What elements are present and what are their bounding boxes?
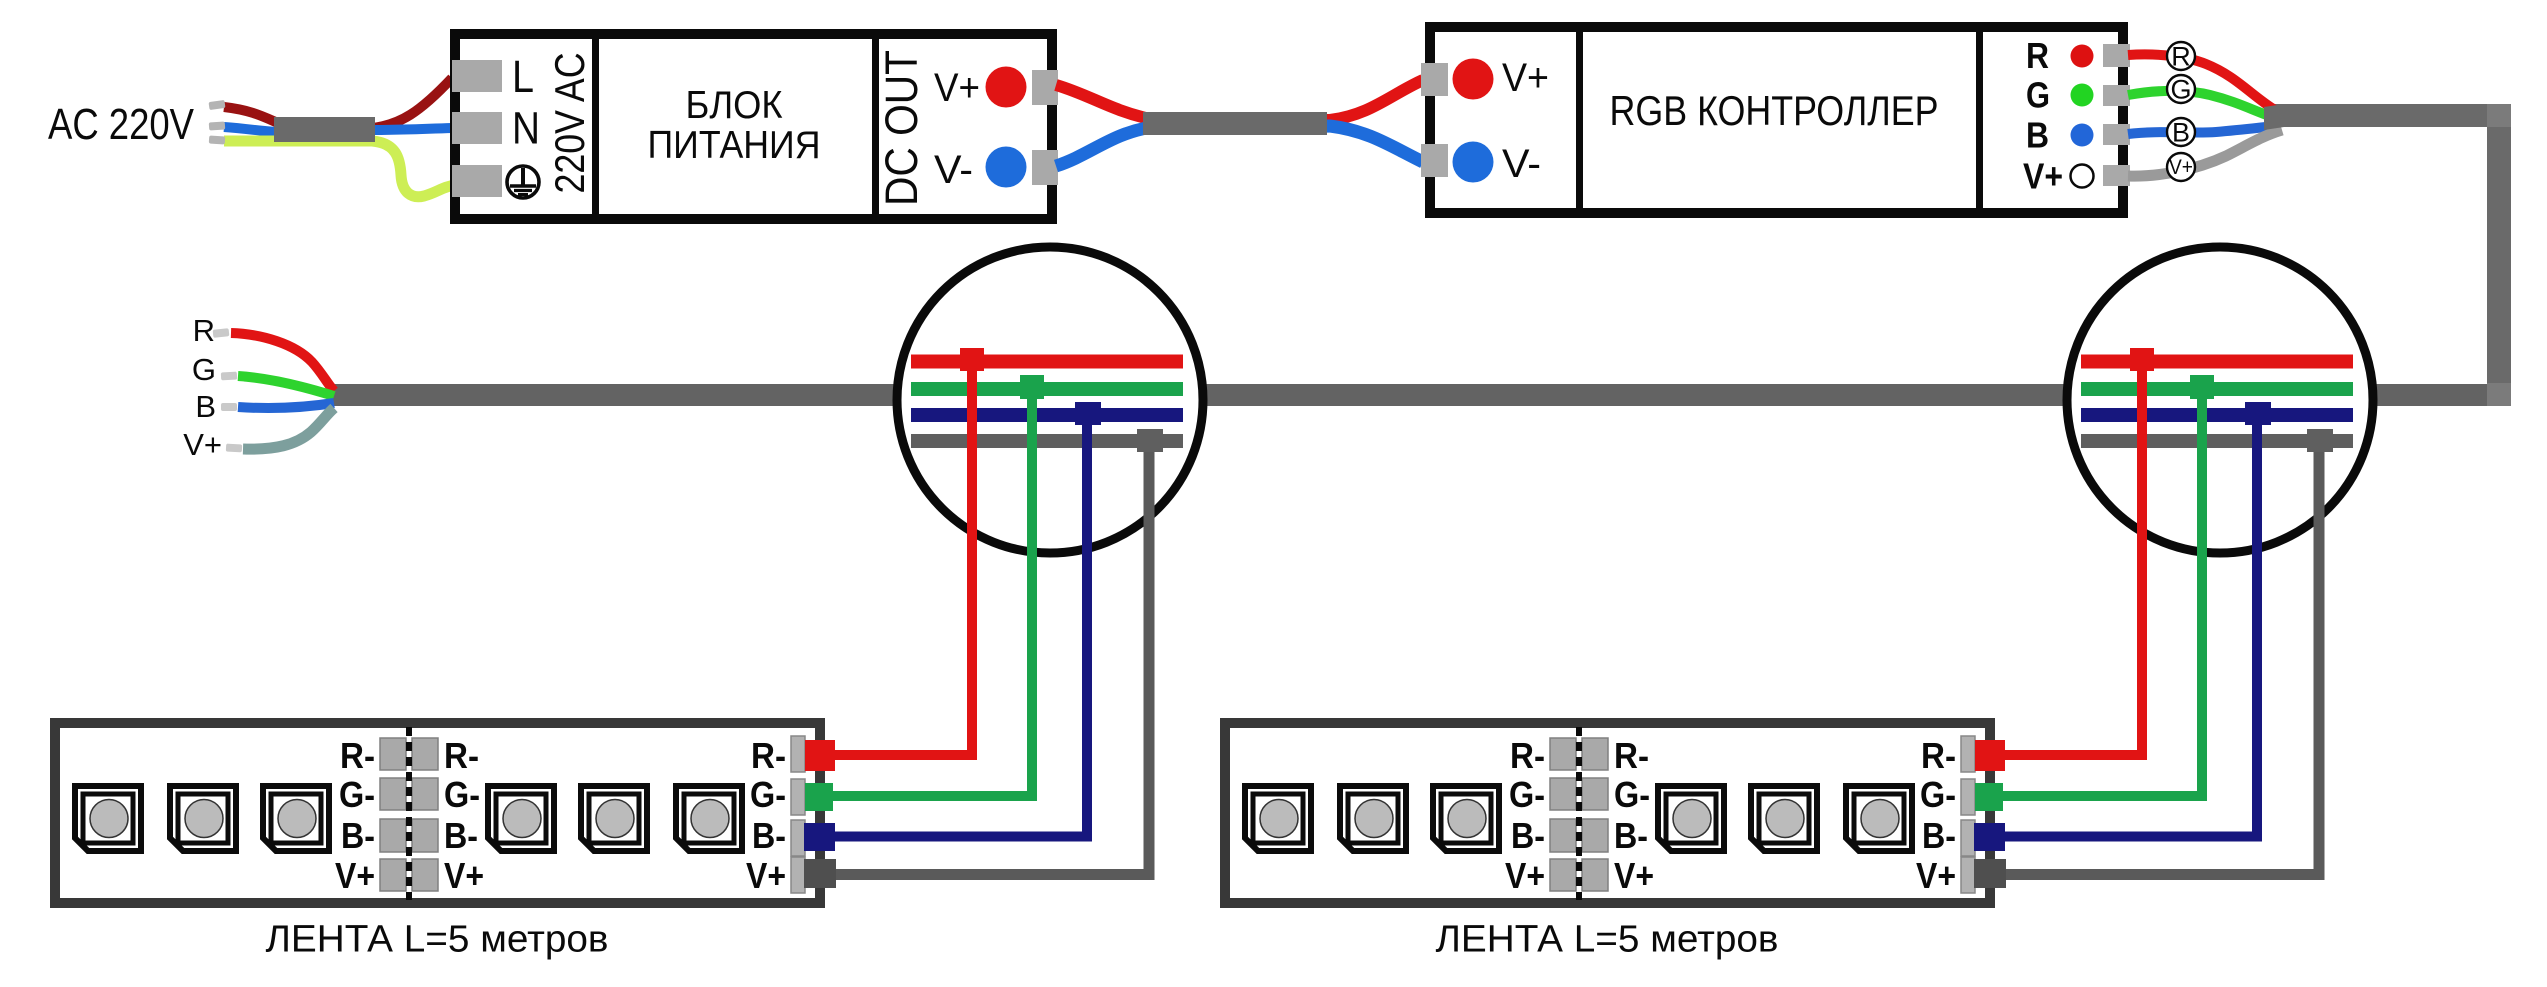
junction tap R right xyxy=(2130,348,2154,371)
ground symbol (protective earth) xyxy=(507,166,539,198)
junction cable corner bottom-right xyxy=(2487,383,2511,406)
svg-text:V+: V+ xyxy=(335,855,375,896)
svg-text:G: G xyxy=(2170,75,2191,105)
AC wire tip 2 xyxy=(209,121,226,130)
wire AC neutral (blue) xyxy=(224,127,452,132)
wire cable vertical run right edge xyxy=(2487,104,2511,406)
wire R band in circle xyxy=(911,355,1183,369)
cable end cap xyxy=(2264,104,2284,130)
AC wire tip 3 xyxy=(209,135,226,144)
PSU terminal earth xyxy=(452,165,502,197)
svg-text:V+: V+ xyxy=(2169,156,2193,179)
svg-text:B: B xyxy=(2026,115,2049,156)
PSU terminal L xyxy=(452,60,502,92)
svg-text:R-: R- xyxy=(340,735,375,776)
controller divider 2 xyxy=(1976,32,1983,208)
power supply unit PSU box xyxy=(455,34,1052,219)
svg-text:ЛЕНТА L=5 метров: ЛЕНТА L=5 метров xyxy=(266,919,609,961)
RGB controller box xyxy=(1430,27,2123,213)
AC wire tip 1 xyxy=(209,100,226,110)
magnifier circle ring right xyxy=(2067,247,2373,553)
svg-text:DC OUT: DC OUT xyxy=(876,50,927,206)
wire B fan (blue) xyxy=(238,403,334,408)
node label R wire xyxy=(2167,42,2195,70)
svg-text:B-: B- xyxy=(341,815,375,856)
wire G fan (green) xyxy=(238,376,334,396)
end connector G (green) xyxy=(805,783,833,811)
junction tap V+ right xyxy=(2307,429,2333,452)
svg-text:ПИТАНИЯ: ПИТАНИЯ xyxy=(648,124,821,167)
junction tap G right xyxy=(2190,375,2214,399)
junction tap B xyxy=(1075,402,1101,425)
wire G drop to strip xyxy=(827,389,1032,796)
wire R (red) controller to cable xyxy=(2128,54,2275,110)
wire R band in circle right xyxy=(2081,355,2353,369)
svg-text:G-: G- xyxy=(750,774,786,815)
node label B wire xyxy=(2167,118,2195,146)
LED D6 xyxy=(676,786,742,851)
svg-text:R-: R- xyxy=(444,735,479,776)
controller output terminal G xyxy=(2103,85,2130,106)
PSU V+ red dot xyxy=(986,67,1027,108)
junction tap V+ xyxy=(1137,429,1163,452)
LED strip 2 xyxy=(1225,723,2006,903)
PSU output terminal V+ xyxy=(1032,70,1058,105)
wire main RGB cable (net CABLE) xyxy=(331,384,2511,406)
wire DC V- (blue) PSU to controller xyxy=(1056,126,1423,166)
svg-text:R: R xyxy=(2171,42,2191,72)
wire B drop to strip xyxy=(827,415,1087,837)
PSU divider 1 xyxy=(592,39,599,214)
controller input terminal V+ xyxy=(1421,63,1448,96)
strip body xyxy=(55,723,820,903)
wire cable top run from controller xyxy=(2272,104,2511,127)
junction tap R xyxy=(960,348,984,371)
svg-text:БЛОК: БЛОК xyxy=(686,84,783,127)
controller input terminal V- xyxy=(1421,144,1448,177)
wire V+ band in circle xyxy=(911,434,1183,448)
svg-text:R: R xyxy=(2026,35,2049,76)
end pad R xyxy=(791,736,805,772)
svg-text:ЛЕНТА L=5 метров: ЛЕНТА L=5 метров xyxy=(1436,919,1779,961)
controller V- blue dot xyxy=(1453,142,1494,183)
end pad G xyxy=(791,779,805,815)
wire R fan (red) xyxy=(231,333,334,391)
svg-text:G-: G- xyxy=(444,774,480,815)
controller output terminal V+ xyxy=(2103,165,2130,186)
junction cable corner top-right xyxy=(2487,104,2511,127)
fan wire tip G xyxy=(221,372,237,381)
wire G (green) controller to cable xyxy=(2128,91,2275,118)
wire R drop to strip right xyxy=(1997,361,2142,755)
svg-text:V-: V- xyxy=(1502,142,1541,186)
svg-text:L: L xyxy=(512,51,534,102)
controller B blue dot xyxy=(2071,124,2094,147)
cut line (dashed) xyxy=(406,727,412,900)
controller divider 1 xyxy=(1576,32,1583,208)
wire B (blue) controller to cable xyxy=(2128,126,2275,134)
controller output terminal R xyxy=(2103,44,2130,67)
end connector V+ (dark gray) xyxy=(804,859,836,888)
svg-text:V+: V+ xyxy=(1502,56,1549,100)
fan wire tip V+ xyxy=(226,444,242,453)
node label G wire xyxy=(2167,75,2195,103)
svg-text:G-: G- xyxy=(339,774,375,815)
fan wire tip B xyxy=(221,403,237,411)
svg-text:220V AC: 220V AC xyxy=(546,53,593,194)
svg-text:B-: B- xyxy=(444,815,478,856)
wire AC earth (yellow-green) xyxy=(224,141,455,197)
wire DC V+ (red) PSU to controller xyxy=(1056,80,1423,120)
wire V+ drop to strip xyxy=(832,441,1149,875)
end connector R (red) xyxy=(805,740,835,771)
wire B drop to strip right xyxy=(1997,415,2257,837)
pad pair G- mid xyxy=(380,778,406,810)
controller R red dot xyxy=(2071,45,2094,68)
wire V+ drop to strip right xyxy=(2002,441,2319,875)
end pad V+ xyxy=(791,857,805,893)
LED D5 xyxy=(581,786,647,851)
svg-text:B-: B- xyxy=(752,815,786,856)
wire V+ fan (gray-teal) xyxy=(243,408,334,449)
wire V+ (gray) controller to cable xyxy=(2128,130,2282,176)
junction tap G xyxy=(1020,375,1044,399)
svg-text:V+: V+ xyxy=(2023,156,2063,197)
wire R drop to strip xyxy=(827,361,972,755)
PSU V- blue dot xyxy=(986,147,1027,188)
svg-text:G: G xyxy=(192,352,216,387)
controller G green dot xyxy=(2071,84,2094,107)
wire G drop to strip right xyxy=(1997,389,2202,796)
magnifier circle right (white fill) xyxy=(2067,247,2373,553)
svg-text:RGB КОНТРОЛЛЕР: RGB КОНТРОЛЛЕР xyxy=(1610,87,1939,134)
svg-text:V+: V+ xyxy=(183,427,222,462)
fan wire tip R xyxy=(213,328,230,338)
svg-text:B: B xyxy=(195,389,216,424)
svg-text:AC 220V: AC 220V xyxy=(48,100,195,149)
PSU divider 2 xyxy=(872,39,879,214)
LED D4 xyxy=(488,786,554,851)
controller output terminal B xyxy=(2103,124,2130,145)
wire B band in circle right xyxy=(2081,408,2353,422)
PSU output terminal V- xyxy=(1032,150,1058,185)
end pad B xyxy=(791,820,805,856)
controller V+ white dot xyxy=(2071,165,2094,188)
junction tap B right xyxy=(2245,402,2271,425)
svg-text:N: N xyxy=(512,103,540,154)
svg-text:R-: R- xyxy=(751,735,786,776)
pad pair R- mid xyxy=(380,738,406,770)
magnifier circle ring xyxy=(897,247,1203,553)
DC cable sheath xyxy=(1143,112,1327,135)
end connector B (navy) xyxy=(804,823,835,851)
svg-text:V+: V+ xyxy=(934,66,980,110)
svg-text:V+: V+ xyxy=(444,855,484,896)
wire V+ band in circle right xyxy=(2081,434,2353,448)
wire G band in circle right xyxy=(2081,382,2353,396)
LED strip 1 xyxy=(55,723,836,903)
PSU terminal N xyxy=(452,112,502,144)
pad pair B- mid xyxy=(380,819,406,852)
node label V+ wire xyxy=(2167,153,2195,181)
magnifier circle left (white fill) xyxy=(897,247,1203,553)
wire G band in circle xyxy=(911,382,1183,396)
svg-text:V-: V- xyxy=(934,148,973,192)
LED D3 xyxy=(263,786,329,851)
LED D2 xyxy=(170,786,236,851)
controller V+ red dot xyxy=(1453,59,1494,100)
svg-text:G: G xyxy=(2026,75,2050,116)
LED D1 xyxy=(75,786,141,851)
svg-text:V+: V+ xyxy=(746,855,786,896)
wire AC phase (dark red) xyxy=(224,78,452,128)
svg-text:R: R xyxy=(193,313,215,348)
svg-text:B: B xyxy=(2172,118,2190,148)
wire B band in circle xyxy=(911,408,1183,422)
pad pair V+ mid xyxy=(380,859,406,891)
AC cable sheath xyxy=(274,117,375,142)
